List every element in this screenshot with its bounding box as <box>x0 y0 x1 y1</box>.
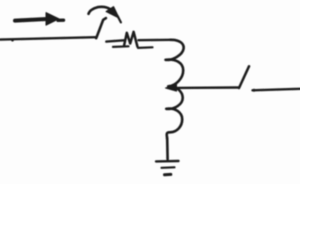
switch S1 closing-motion arrow <box>89 7 121 23</box>
inductor L1 (4 loops) <box>166 40 184 139</box>
resistor (zigzag) <box>113 32 153 48</box>
input current direction arrow <box>15 13 64 26</box>
wire: output lead <box>253 89 301 92</box>
wire: inductor to ground <box>166 138 169 159</box>
wire: tap to switch S2 <box>174 86 239 89</box>
switch S2 blade <box>239 66 249 88</box>
switch S1 blade <box>96 18 106 38</box>
ground <box>156 161 179 175</box>
wire: input lead <box>0 37 96 41</box>
wire: switch S1 to resistor <box>106 40 124 41</box>
inductor tap wiper arrow <box>166 85 177 91</box>
wire: resistor to inductor <box>139 39 172 42</box>
